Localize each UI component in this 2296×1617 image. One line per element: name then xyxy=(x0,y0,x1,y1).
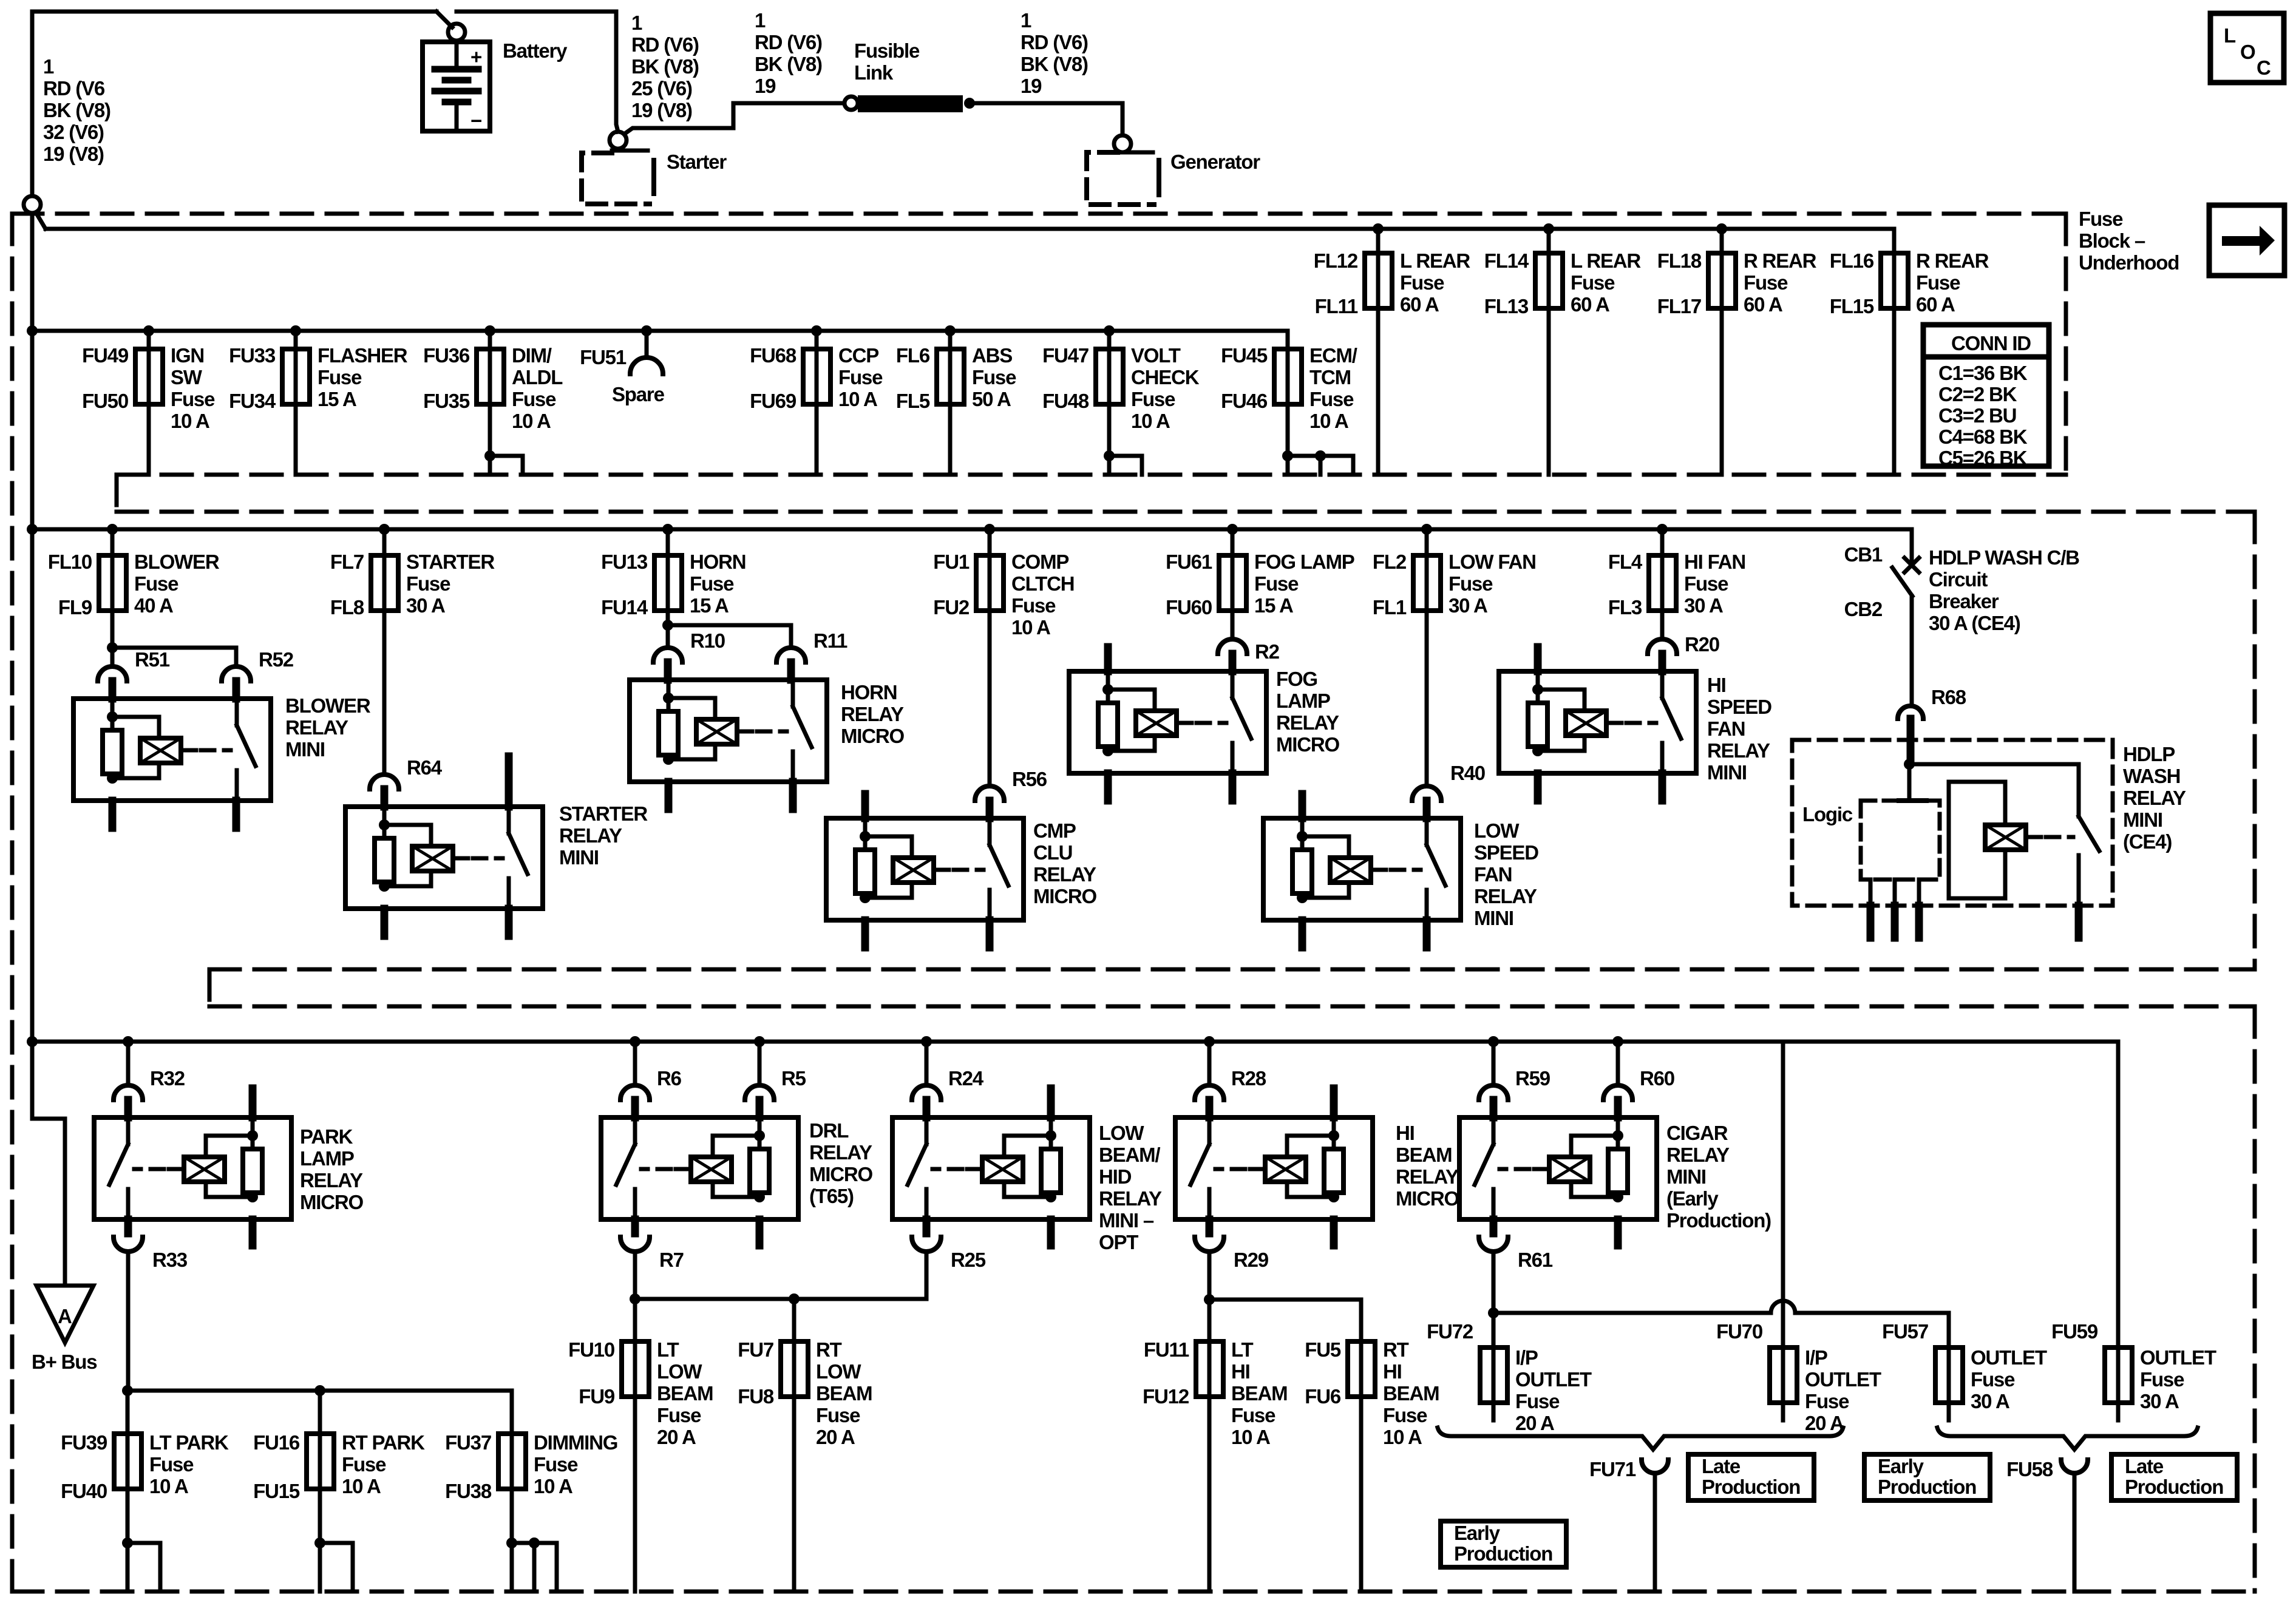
pin stub R60 xyxy=(1614,1100,1622,1117)
pin stub R52 xyxy=(233,681,240,699)
pin stub R29 xyxy=(1206,1219,1214,1233)
wire fuse lower lead xyxy=(147,404,151,475)
pin stub R32 xyxy=(124,1100,132,1117)
label I/P OUTLET Fuse 20 A xyxy=(1805,1346,1881,1434)
svg-text:40 A: 40 A xyxy=(134,594,173,617)
connector R61 xyxy=(1479,1237,1508,1252)
junction FU40 tab xyxy=(122,1537,133,1548)
svg-text:FL13: FL13 xyxy=(1484,295,1529,317)
pin stub dead bottom xyxy=(1330,1219,1338,1246)
wire top feed xyxy=(32,10,436,14)
svg-text:RELAY: RELAY xyxy=(1666,1144,1730,1166)
label DIM/ ALDL Fuse 10 A xyxy=(512,344,563,432)
fuse FU7/FU8 RT LOW BEAM Fuse 20 A xyxy=(781,1341,808,1397)
svg-text:HDLP WASH C/B: HDLP WASH C/B xyxy=(1929,546,2079,569)
svg-text:FU35: FU35 xyxy=(423,390,470,412)
svg-text:Fuse: Fuse xyxy=(1400,271,1444,294)
wire R61 down xyxy=(1492,1252,1496,1313)
wire battery drop diagonal xyxy=(436,12,452,27)
svg-text:RELAY: RELAY xyxy=(559,824,622,847)
svg-text:BK (V8): BK (V8) xyxy=(43,99,110,121)
svg-text:FU39: FU39 xyxy=(61,1431,107,1454)
connector R60 xyxy=(1603,1085,1632,1100)
svg-text:R7: R7 xyxy=(659,1249,684,1271)
wire feed to bus0 diagonal xyxy=(36,212,46,229)
svg-text:19 (V8): 19 (V8) xyxy=(631,99,692,121)
junction feed/bus1 xyxy=(27,325,38,336)
svg-text:R52: R52 xyxy=(259,648,294,671)
connector R56 xyxy=(975,786,1004,801)
wire bus relay row xyxy=(32,527,1912,532)
svg-text:R25: R25 xyxy=(951,1249,986,1271)
svg-text:RD (V6): RD (V6) xyxy=(755,31,822,53)
svg-text:Early: Early xyxy=(1878,1455,1924,1477)
wire FL13 lower lead xyxy=(1547,308,1551,475)
battery positive terminal xyxy=(448,24,465,41)
svg-text:CONN ID: CONN ID xyxy=(1951,332,2031,354)
pin stub horn 2 xyxy=(789,782,797,809)
label LOW FAN Fuse 30 A xyxy=(1449,551,1536,617)
svg-text:DIM/: DIM/ xyxy=(512,344,552,367)
svg-text:O: O xyxy=(2240,41,2255,63)
wire left feed upper xyxy=(30,12,35,196)
wire to R60 xyxy=(1616,1042,1620,1085)
wire to R52 xyxy=(112,648,236,666)
connector R11 xyxy=(776,648,806,662)
label LOW SPEED FAN RELAY MINI xyxy=(1474,819,1538,929)
pin stub lowfan 2 xyxy=(1423,920,1431,947)
svg-text:RELAY: RELAY xyxy=(841,703,904,725)
svg-text:HDLP: HDLP xyxy=(2123,743,2175,765)
wire FU15 connector tab xyxy=(320,1543,353,1592)
generator terminal xyxy=(1114,135,1131,152)
relay HDLP WASH RELAY MINI (CE4) outline xyxy=(1792,740,2113,906)
pin stub R40 xyxy=(1423,801,1431,818)
wire FU6 lower lead xyxy=(1359,1397,1364,1592)
svg-text:C2=2 BK: C2=2 BK xyxy=(1938,383,2017,405)
svg-text:MICRO: MICRO xyxy=(1396,1187,1459,1210)
pin stub hifan 2 xyxy=(1659,773,1666,801)
wire R25 down xyxy=(925,1252,929,1299)
fuse FU1/FU2 COMP CLTCH Fuse 10 A xyxy=(976,555,1004,611)
wire FU40 connector tab xyxy=(127,1543,160,1592)
relay FOG LAMP RELAY MICRO xyxy=(1069,671,1266,773)
svg-text:Fuse: Fuse xyxy=(149,1453,194,1476)
svg-text:20 A: 20 A xyxy=(1805,1412,1844,1434)
wire FU10 drop xyxy=(633,1299,637,1341)
wire FU9 lower lead xyxy=(633,1397,637,1592)
svg-text:RT: RT xyxy=(1383,1338,1409,1361)
wire FU40 lower lead xyxy=(126,1489,130,1592)
svg-text:60 A: 60 A xyxy=(1400,293,1439,316)
fuse FU36/FU35 DIM/ ALDL Fuse 10 A xyxy=(477,349,504,404)
fusible link right junction xyxy=(964,98,975,109)
junction feed/bus2 xyxy=(27,524,38,535)
wire main feed vertical xyxy=(30,213,35,1042)
fuse FL12/FL11 L REAR 60 A xyxy=(1365,253,1392,308)
svg-text:FU34: FU34 xyxy=(229,390,276,412)
svg-text:FU58: FU58 xyxy=(2006,1458,2053,1480)
svg-text:FOG LAMP: FOG LAMP xyxy=(1254,551,1354,573)
label HI FAN Fuse 30 A xyxy=(1684,551,1745,617)
label VOLT CHECK Fuse 10 A xyxy=(1131,344,1200,432)
junction bus/R59 xyxy=(1488,1036,1499,1047)
svg-text:ALDL: ALDL xyxy=(512,366,563,388)
LOC locator box xyxy=(2210,13,2284,83)
svg-text:RD (V6: RD (V6 xyxy=(43,77,105,100)
fuse FL7/FL8 STARTER Fuse 30 A xyxy=(371,555,398,611)
svg-text:FU40: FU40 xyxy=(61,1480,107,1502)
wire battery to starter xyxy=(457,10,616,14)
wire FU16 drop xyxy=(318,1391,322,1434)
svg-text:FOG: FOG xyxy=(1276,668,1317,690)
wire FU14 to R10 xyxy=(666,611,670,648)
wire FU51 drop xyxy=(645,331,649,356)
pin stub R2 xyxy=(1229,654,1237,671)
logic module pins xyxy=(1870,880,1919,938)
svg-text:R REAR: R REAR xyxy=(1744,249,1817,272)
svg-text:SW: SW xyxy=(171,366,203,388)
svg-text:10 A: 10 A xyxy=(1131,410,1170,432)
svg-text:Production: Production xyxy=(1702,1476,1800,1498)
svg-text:OUTLET: OUTLET xyxy=(2140,1346,2216,1369)
wire FL10 drop xyxy=(110,529,115,555)
wire FU68 drop xyxy=(815,331,819,349)
fuse FU59 OUTLET Fuse 30 A xyxy=(2105,1347,2132,1403)
svg-text:R33: R33 xyxy=(152,1249,188,1271)
junction feed/bus3 xyxy=(27,1036,38,1047)
CONN ID table xyxy=(1923,325,2049,469)
wire FL11 lower lead xyxy=(1376,308,1381,475)
pin stub R20 xyxy=(1659,654,1666,671)
svg-text:FU16: FU16 xyxy=(253,1431,300,1454)
svg-text:Fuse: Fuse xyxy=(2079,208,2123,230)
svg-text:15 A: 15 A xyxy=(318,388,356,410)
svg-text:R6: R6 xyxy=(657,1067,682,1090)
svg-text:RELAY: RELAY xyxy=(1474,885,1537,907)
fuse FU39/FU40 LT PARK Fuse 10 A xyxy=(114,1434,141,1489)
svg-text:FL16: FL16 xyxy=(1830,249,1874,272)
svg-text:FU48: FU48 xyxy=(1042,390,1089,412)
junction bus/FL18 xyxy=(1716,223,1727,234)
connector R51 xyxy=(98,666,127,681)
svg-text:FU1: FU1 xyxy=(933,551,970,573)
svg-text:R40: R40 xyxy=(1450,762,1485,784)
svg-text:60 A: 60 A xyxy=(1744,293,1782,316)
pin stub R68 xyxy=(1907,719,1915,759)
svg-text:FU15: FU15 xyxy=(253,1480,300,1502)
svg-text:FL2: FL2 xyxy=(1373,551,1407,573)
svg-text:+: + xyxy=(470,46,481,68)
svg-text:Late: Late xyxy=(2125,1455,2164,1477)
svg-text:R28: R28 xyxy=(1231,1067,1266,1090)
fuse block border left xyxy=(10,214,15,1592)
region 3 right border xyxy=(2253,1006,2257,1592)
svg-text:FL4: FL4 xyxy=(1608,551,1643,573)
junction bus/FL12 xyxy=(1373,223,1384,234)
svg-text:A: A xyxy=(58,1305,72,1327)
junction FU38 tab A xyxy=(506,1537,517,1548)
wire to R6 xyxy=(633,1042,637,1085)
wire FU57 lower stub xyxy=(1947,1403,1951,1420)
svg-text:R61: R61 xyxy=(1518,1249,1553,1271)
wire FU72 lower stub xyxy=(1492,1403,1496,1420)
svg-text:R68: R68 xyxy=(1931,686,1966,708)
junction bus/FU1 xyxy=(984,524,995,535)
svg-text:(Early: (Early xyxy=(1666,1187,1719,1210)
svg-text:10 A: 10 A xyxy=(1309,410,1348,432)
wire FU38 lower lead xyxy=(510,1489,514,1592)
svg-text:SPEED: SPEED xyxy=(1707,696,1771,718)
svg-text:Fuse: Fuse xyxy=(1254,572,1299,595)
junction bus5/FU72 xyxy=(1488,1307,1499,1318)
svg-text:R29: R29 xyxy=(1234,1249,1269,1271)
label HDLP WASH C/B Circuit Breaker 30 A (CE4) xyxy=(1929,546,2079,634)
pin stub starter 2 xyxy=(505,909,513,936)
svg-text:Fuse: Fuse xyxy=(1309,388,1354,410)
wire starter box top xyxy=(612,149,648,153)
connector R7 xyxy=(620,1237,650,1252)
connector R2 xyxy=(1218,639,1247,654)
wire FL14 drop xyxy=(1547,229,1551,253)
fuse FU70 I/P OUTLET Fuse 20 A xyxy=(1770,1347,1797,1403)
region 1/2 left connector xyxy=(115,475,119,512)
wire generator drop xyxy=(1121,103,1125,135)
fuse FL10/FL9 BLOWER Fuse 40 A xyxy=(99,555,126,611)
svg-text:HI: HI xyxy=(1231,1360,1250,1383)
svg-text:HORN: HORN xyxy=(690,551,746,573)
junction bus/FU33 xyxy=(290,325,301,336)
wire FL1 to R40 xyxy=(1425,611,1429,786)
wire FU7 drop xyxy=(792,1299,796,1341)
junction FU35 tab xyxy=(484,450,495,461)
label FLASHER Fuse 15 A xyxy=(318,344,408,410)
wire FU8 lower lead xyxy=(792,1397,796,1592)
svg-text:DIMMING: DIMMING xyxy=(534,1431,617,1454)
svg-text:C3=2 BU: C3=2 BU xyxy=(1938,404,2016,427)
connector R64 xyxy=(370,775,399,789)
pin stub dead top xyxy=(1047,1088,1055,1117)
svg-text:HI: HI xyxy=(1396,1122,1415,1144)
wire FL9 to R51 xyxy=(110,611,115,666)
relay CIGAR RELAY MINI (Early Production) xyxy=(1459,1117,1657,1219)
B+ Bus triangle A xyxy=(36,1286,93,1343)
wire FL8 to R64 xyxy=(382,611,387,775)
svg-text:R64: R64 xyxy=(407,756,443,779)
svg-text:HI: HI xyxy=(1383,1360,1402,1383)
wire FU11 drop xyxy=(1207,1300,1212,1341)
svg-text:Production): Production) xyxy=(1666,1209,1771,1232)
label HI BEAM RELAY MICRO xyxy=(1396,1122,1459,1210)
pin stub cmp 2 xyxy=(986,920,994,947)
label RT LOW BEAM Fuse 20 A xyxy=(816,1338,872,1448)
svg-text:FAN: FAN xyxy=(1474,863,1512,886)
relay HDLP WASH RELAY MINI internals xyxy=(1904,759,2099,938)
junction FU15 tab xyxy=(314,1537,325,1548)
connector R5 xyxy=(745,1085,774,1100)
svg-text:LT: LT xyxy=(657,1338,679,1361)
wire low beam fuse bus xyxy=(635,1297,926,1301)
svg-text:FU60: FU60 xyxy=(1166,596,1212,619)
fuse FU45/FU46 ECM/ TCM Fuse 10 A xyxy=(1274,349,1302,404)
svg-text:Fuse: Fuse xyxy=(1571,271,1615,294)
callout box Early Production 2 xyxy=(1864,1454,1990,1500)
pin stub dead bottom xyxy=(249,1219,257,1246)
label STARTER Fuse 30 A xyxy=(406,551,495,617)
svg-text:CLU: CLU xyxy=(1033,841,1072,864)
pin stub dead bottom xyxy=(1047,1219,1055,1246)
svg-text:STARTER: STARTER xyxy=(559,802,648,825)
svg-text:I/P: I/P xyxy=(1515,1346,1538,1369)
junction FU10 tap xyxy=(630,1293,640,1304)
svg-text:RELAY: RELAY xyxy=(1099,1187,1162,1210)
wire FU47 drop xyxy=(1107,331,1112,349)
svg-text:MICRO: MICRO xyxy=(841,725,905,747)
wire FU48 lower lead xyxy=(1107,404,1112,475)
wire FU48 connector tab xyxy=(1109,456,1142,475)
pin stub blower 1 xyxy=(109,801,117,828)
svg-text:TCM: TCM xyxy=(1309,366,1351,388)
label LT HI BEAM Fuse 10 A xyxy=(1231,1338,1287,1448)
pin stub R5 xyxy=(756,1100,764,1117)
svg-text:FU14: FU14 xyxy=(601,596,648,619)
label LT LOW BEAM Fuse 20 A xyxy=(657,1338,713,1448)
svg-text:(CE4): (CE4) xyxy=(2123,830,2172,853)
svg-text:Fuse: Fuse xyxy=(972,366,1016,388)
svg-text:FU61: FU61 xyxy=(1166,551,1212,573)
svg-text:R32: R32 xyxy=(150,1067,185,1090)
wire R7 down xyxy=(633,1252,637,1299)
svg-text:HID: HID xyxy=(1099,1165,1132,1188)
svg-text:LAMP: LAMP xyxy=(1276,690,1330,712)
label L REAR Fuse 60 A xyxy=(1400,249,1470,316)
pin stub R61 xyxy=(1490,1219,1498,1233)
junction bus/R28 xyxy=(1204,1036,1215,1047)
svg-text:CIGAR: CIGAR xyxy=(1666,1122,1728,1144)
pin stub dead top xyxy=(1330,1088,1338,1117)
junction bus4 left xyxy=(122,1385,133,1396)
spare cavity FU58 xyxy=(2061,1460,2088,1473)
junction bus/FL4 xyxy=(1657,524,1668,535)
fuse FU47/FU48 VOLT CHECK Fuse 10 A xyxy=(1096,349,1123,404)
junction horn feed split xyxy=(662,620,673,631)
svg-text:10 A: 10 A xyxy=(1011,616,1050,639)
svg-text:60 A: 60 A xyxy=(1916,293,1955,316)
fuse FL6/FL5 ABS Fuse 50 A xyxy=(937,349,964,404)
wire FU15 lower lead xyxy=(318,1489,322,1592)
label CMP CLU RELAY MICRO xyxy=(1033,819,1097,907)
junction FU46 tab B xyxy=(1315,450,1326,461)
svg-text:Fuse: Fuse xyxy=(1515,1390,1560,1412)
svg-text:10 A: 10 A xyxy=(1231,1426,1270,1448)
junction bus/R24 xyxy=(921,1036,932,1047)
svg-text:FL8: FL8 xyxy=(330,596,364,619)
svg-text:Battery: Battery xyxy=(503,39,568,62)
svg-text:BEAM: BEAM xyxy=(1396,1144,1452,1166)
spare fuse cavity FU51 xyxy=(630,358,663,374)
svg-text:1: 1 xyxy=(631,12,642,34)
svg-text:60 A: 60 A xyxy=(1571,293,1609,316)
junction FU11 tap xyxy=(1204,1294,1215,1305)
svg-text:30 A: 30 A xyxy=(1449,594,1487,617)
wire FU57 drop xyxy=(1947,1313,1951,1347)
svg-text:FU8: FU8 xyxy=(738,1385,774,1408)
svg-text:C: C xyxy=(2257,56,2271,79)
svg-text:32 (V6): 32 (V6) xyxy=(43,121,104,143)
junction bus/R32 xyxy=(123,1036,134,1047)
fuse block border top-right notch xyxy=(2064,214,2068,475)
fusible link left terminal xyxy=(844,97,858,110)
wire FU36 drop xyxy=(488,331,492,349)
label R REAR Fuse 60 A xyxy=(1916,249,1989,316)
pin stub R25 xyxy=(923,1219,931,1233)
svg-text:Fuse: Fuse xyxy=(1971,1368,2015,1391)
svg-text:I/P: I/P xyxy=(1805,1346,1827,1369)
svg-text:20 A: 20 A xyxy=(816,1426,855,1448)
svg-text:25 (V6): 25 (V6) xyxy=(631,77,692,100)
wire kink to fusible link xyxy=(733,103,844,128)
label R REAR Fuse 60 A xyxy=(1744,249,1817,316)
svg-text:FU49: FU49 xyxy=(82,344,129,367)
svg-text:FU36: FU36 xyxy=(423,344,470,367)
svg-text:Fuse: Fuse xyxy=(1805,1390,1849,1412)
label RT HI BEAM Fuse 10 A xyxy=(1383,1338,1439,1448)
label circuit 1 RD/BK fusible left xyxy=(755,9,822,97)
pin stub fog top xyxy=(1104,647,1112,671)
wire FU35 connector tab xyxy=(490,456,523,475)
wire FU72 drop xyxy=(1492,1313,1496,1347)
svg-text:15 A: 15 A xyxy=(690,594,729,617)
wire FL4 drop xyxy=(1660,529,1665,555)
wire to R32 xyxy=(126,1042,131,1085)
svg-text:30 A: 30 A xyxy=(1971,1390,2009,1412)
svg-text:BEAM: BEAM xyxy=(1231,1382,1287,1405)
label STARTER RELAY MINI xyxy=(559,802,648,869)
wire FL15 lower lead xyxy=(1892,308,1897,475)
svg-text:R60: R60 xyxy=(1640,1067,1674,1090)
connector R6 xyxy=(620,1085,650,1100)
svg-text:HI FAN: HI FAN xyxy=(1684,551,1745,573)
wire R33 to park fuse bus xyxy=(126,1252,131,1391)
wire to R24 xyxy=(925,1042,929,1085)
pin stub cmp top xyxy=(861,794,869,818)
svg-text:Circuit: Circuit xyxy=(1929,568,1988,591)
svg-text:FL3: FL3 xyxy=(1608,596,1642,619)
svg-text:19: 19 xyxy=(1021,75,1042,97)
pin stub fog 1 xyxy=(1104,773,1112,801)
label LT PARK Fuse 10 A xyxy=(149,1431,229,1497)
fuse block border top xyxy=(12,212,2066,216)
connector R52 xyxy=(222,666,251,681)
label PARK LAMP RELAY MICRO xyxy=(300,1125,364,1213)
wire to R11 xyxy=(668,625,791,648)
wire bus feed 60A row xyxy=(46,227,1894,231)
svg-text:1: 1 xyxy=(1021,9,1031,32)
battery xyxy=(423,42,490,132)
pin stub cmp 1 xyxy=(861,920,869,947)
svg-text:FL10: FL10 xyxy=(48,551,92,573)
label BLOWER RELAY MINI xyxy=(285,694,371,761)
wire FU58 lead xyxy=(2073,1473,2077,1592)
label OUTLET Fuse 30 A xyxy=(2140,1346,2216,1412)
wire FL6 drop xyxy=(948,331,953,349)
svg-text:BK (V8): BK (V8) xyxy=(755,53,822,75)
svg-text:BEAM: BEAM xyxy=(816,1382,872,1405)
wire FL18 drop xyxy=(1720,229,1724,253)
svg-text:Production: Production xyxy=(1454,1542,1552,1565)
svg-text:OPT: OPT xyxy=(1099,1231,1138,1253)
svg-text:Fuse: Fuse xyxy=(1011,594,1056,617)
